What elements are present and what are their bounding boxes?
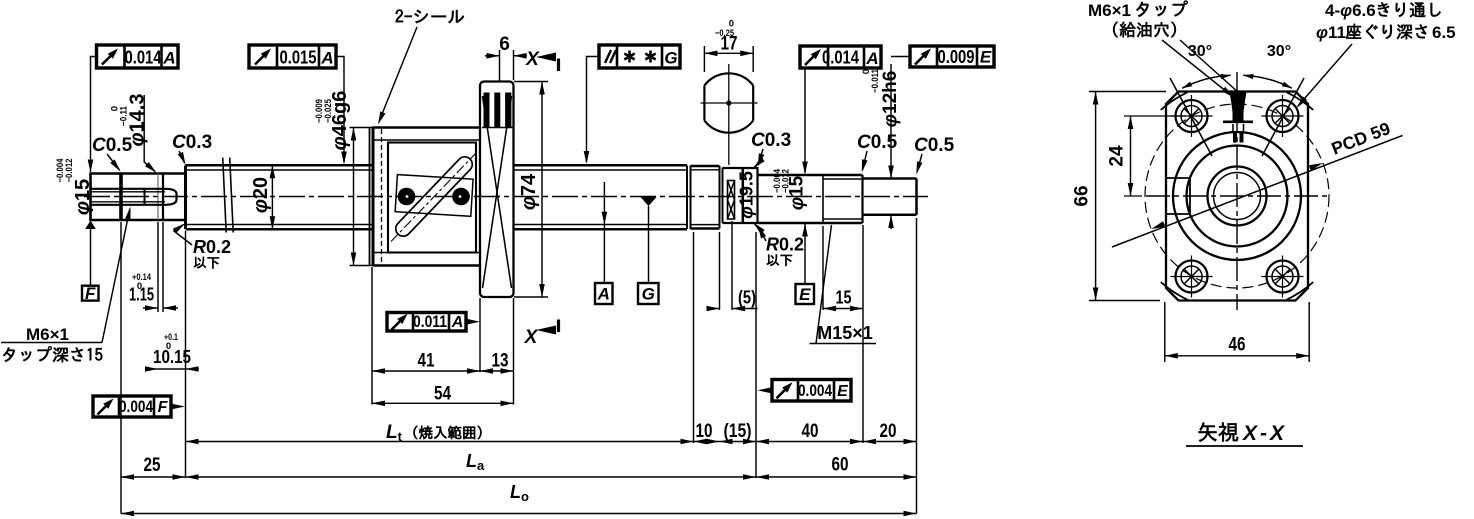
fillet label R0.2 right leader (760, 229, 767, 242)
svg-text:−0.012: −0.012 (64, 159, 75, 183)
chamfer label C0.3 right leader (759, 149, 764, 164)
frame F1 runout 0.014 A (97, 45, 179, 68)
svg-text:X: X (525, 49, 540, 70)
dimension 15 thread length (822, 226, 824, 310)
flats section crosshair (701, 102, 758, 104)
frame F2 runout 0.015 A (249, 45, 336, 68)
frame F8 leader arrow (763, 389, 772, 391)
thread end marks (686, 166, 688, 230)
svg-text:−0.11: −0.11 (119, 105, 130, 126)
dimension 46 (1164, 302, 1166, 362)
dimension 10 (694, 441, 720, 443)
screw shaft thread OD bottom left segment (186, 228, 374, 231)
svg-text:10.15: 10.15 (153, 347, 191, 367)
frame F3 parallelism leader (587, 57, 600, 163)
return tube leg hole left (398, 188, 416, 206)
dimension Lt hardened range (186, 441, 694, 443)
ball nut body outline (373, 126, 481, 129)
svg-text:25: 25 (144, 455, 161, 476)
extension line left end (120, 222, 122, 514)
svg-text:−0.012: −0.012 (781, 169, 792, 193)
svg-text:φ20: φ20 (250, 177, 272, 213)
dimension phi19.5 (753, 159, 763, 169)
datum G triangle on axis (641, 197, 657, 206)
X-X vertical centerline (1236, 72, 1238, 310)
frame F7 leader arrow (171, 406, 180, 408)
dimension 60 (756, 476, 917, 478)
datum F box (82, 286, 99, 301)
svg-text:E: E (837, 383, 849, 400)
dimension 25 (121, 476, 186, 478)
shaft break marks (223, 158, 227, 233)
datum A box (595, 283, 613, 304)
svg-text:0.015: 0.015 (280, 48, 317, 68)
dimension 6 flange step (499, 50, 501, 82)
return tube leg hole right (452, 188, 470, 206)
svg-text:F: F (85, 284, 96, 303)
section cut X arrow top (557, 59, 560, 72)
X-X pilot circle (1187, 146, 1288, 247)
svg-text:20: 20 (880, 421, 897, 442)
X-X 30 degree radial line left (1170, 78, 1212, 156)
svg-text:φ12h6: φ12h6 (880, 71, 901, 128)
svg-text:X-X: X-X (1242, 422, 1287, 445)
screw shaft thread OD top left segment (186, 164, 374, 167)
screw shaft thread root top right segment (514, 169, 688, 171)
svg-text:M6×1: M6×1 (26, 325, 69, 344)
frame F8 runout 0.004 E (772, 380, 851, 402)
X-X flange OD corner arcs (1161, 92, 1188, 110)
snap ring groove left edge (157, 174, 159, 221)
screw shaft thread root bottom left segment (187, 224, 373, 226)
svg-text:X: X (524, 327, 539, 348)
PCD 59 diameter line (1112, 136, 1403, 248)
svg-text:A: A (451, 314, 464, 331)
svg-text:60: 60 (832, 455, 849, 476)
datum G box (638, 283, 659, 304)
X-X bolt hole bottom right (1267, 261, 1299, 293)
svg-text:−0.025: −0.025 (323, 98, 334, 123)
svg-text:R0.2: R0.2 (193, 237, 231, 257)
svg-text:E: E (980, 48, 992, 67)
wrench flat section outline (723, 167, 758, 169)
phi12 end section (863, 177, 917, 180)
svg-text:6.5: 6.5 (1432, 23, 1456, 42)
svg-text:φ14.3: φ14.3 (127, 93, 149, 146)
svg-text:0.004: 0.004 (119, 398, 154, 416)
X-X bolt hole top right (1267, 100, 1299, 132)
datum F triangle and leader (85, 221, 96, 230)
svg-text:13: 13 (492, 351, 509, 372)
label M6x1 tap leader (1162, 40, 1232, 96)
dimension 13 flange thickness (513, 298, 515, 405)
wrench flat section left edge (719, 166, 721, 229)
section cut X arrow bottom (557, 320, 560, 333)
label M6x1 leader (1, 342, 102, 344)
X-X horizontal centerline (1146, 195, 1328, 197)
left end face (89, 173, 92, 222)
svg-text:6: 6 (499, 34, 510, 55)
svg-text:(5): (5) (738, 288, 756, 308)
dimension 40 (756, 441, 863, 443)
M6 tap hole outline (91, 188, 166, 190)
svg-text:F: F (158, 399, 169, 416)
svg-text:0.011: 0.011 (413, 313, 447, 331)
dimension 20 (863, 441, 917, 443)
dimension 54 nut total (372, 402, 514, 404)
svg-text:−0.25: −0.25 (715, 28, 735, 39)
M15 thread end shoulder (861, 175, 863, 223)
return tube capsule (393, 154, 476, 240)
chamfer label C0.3 left leader (179, 151, 185, 163)
svg-text:54: 54 (434, 384, 451, 405)
dimension La (186, 476, 757, 478)
frame F7 runout 0.004 F (93, 396, 171, 417)
svg-text:24: 24 (1107, 145, 1128, 167)
dimension 17 across flats (703, 46, 705, 72)
plain section after thread (691, 165, 720, 168)
label 4-phi6.6 leader (1298, 44, 1352, 106)
frame F3 parallelism asterisks G (599, 45, 680, 68)
return tube clamp plate (395, 175, 473, 217)
label 2-seals (396, 10, 464, 24)
dimension phi14.3 leader (144, 95, 155, 172)
X-X bolt circle PCD dashed (1145, 104, 1329, 288)
return tube axis centerline (391, 152, 477, 242)
snap ring groove right edge (162, 174, 164, 221)
X-X bolt hole bottom left (1176, 261, 1208, 293)
wrench flats cross-section circle (704, 73, 753, 85)
main shaft centerline (84, 196, 928, 198)
dimension phi20 (271, 165, 273, 229)
dimension 1.15 groove width (157, 222, 159, 312)
svg-text:C0.3: C0.3 (172, 132, 212, 153)
X-X 30 degree radial line right (1262, 78, 1304, 156)
svg-text:φ19.5: φ19.5 (737, 171, 757, 219)
svg-text:A: A (320, 49, 333, 68)
dimension (15) (720, 441, 757, 443)
phi15 right journal (758, 174, 824, 177)
dimension phi12h6 with tolerance (890, 64, 892, 177)
nut flange outline (480, 82, 514, 298)
extension line thread start right (693, 232, 695, 443)
svg-text:0.004: 0.004 (798, 382, 833, 400)
left journal phi15 top line (91, 172, 186, 175)
svg-text:A: A (865, 49, 878, 68)
ball nut window rectangle (388, 143, 476, 253)
X-X center bore circles (1214, 173, 1261, 220)
screw shaft thread OD bottom right segment (514, 228, 688, 231)
X-X oil hole and tube top structure (1230, 92, 1247, 112)
dimension 66 (1089, 91, 1166, 93)
svg-text:30°: 30° (1267, 43, 1291, 60)
datum E box (796, 284, 815, 304)
left journal step line (119, 174, 123, 221)
nut flange cross lines (483, 96, 512, 288)
svg-text:15: 15 (836, 288, 852, 308)
svg-text:C0.5: C0.5 (914, 135, 955, 156)
dimension 10.15 from groove (185, 231, 187, 478)
frame F2 runout 0.015 A leader (336, 57, 344, 163)
svg-text:0.009: 0.009 (938, 47, 975, 67)
svg-text:G: G (664, 49, 677, 68)
frame F5 runout 0.009 E (910, 46, 994, 67)
dimension 41 nut body (371, 267, 373, 405)
svg-text:φ11: φ11 (1316, 23, 1346, 42)
svg-text:(15): (15) (724, 421, 752, 442)
svg-text:C0.3: C0.3 (751, 130, 791, 151)
dimension phi74 flange (514, 81, 548, 83)
frame F6 leader arrow (466, 321, 475, 323)
svg-text:−0.011: −0.011 (870, 68, 881, 93)
frame F6 runout 0.011 A (387, 313, 466, 332)
return tube at flange top (484, 93, 490, 128)
chamfer label C0.5 mid leader (863, 151, 868, 170)
svg-text:0.014: 0.014 (125, 48, 162, 68)
svg-text:E: E (799, 285, 811, 304)
dimension phi15 right with tolerance (804, 64, 806, 173)
svg-text:10: 10 (696, 421, 713, 442)
X-X bolt hole top left (1176, 100, 1208, 132)
svg-text:40: 40 (802, 421, 819, 442)
dimension 24 (1124, 115, 1186, 117)
wrench flat section inner line (742, 168, 745, 223)
svg-text:A: A (162, 49, 175, 68)
svg-text:4-φ6.6: 4-φ6.6 (1325, 1, 1376, 20)
M15 thread section (823, 174, 863, 177)
extension line right end (916, 218, 918, 514)
svg-text:A: A (597, 285, 610, 304)
fillet label R0.2 leader left (174, 225, 192, 246)
svg-text:R0.2: R0.2 (766, 235, 804, 255)
left journal phi15 bottom line (91, 219, 186, 222)
datum A leader on screw (603, 182, 605, 283)
left shoulder face (184, 166, 187, 230)
frame F4 runout 0.014 A right (800, 46, 881, 68)
ball nut seal hidden line left (381, 129, 383, 263)
svg-text:66: 66 (1072, 185, 1093, 206)
frame F1 runout 0.014 A leader (91, 57, 97, 173)
M15 thread start line (822, 175, 824, 223)
shoulder to phi15 right (756, 167, 758, 224)
svg-text:M6×1: M6×1 (1088, 1, 1131, 20)
svg-text:φ15: φ15 (72, 179, 94, 215)
chamfer label C0.5 left leader (107, 154, 120, 170)
svg-text:46: 46 (1229, 335, 1246, 356)
screw shaft thread OD top right segment (514, 164, 688, 167)
svg-text:1.15: 1.15 (129, 285, 154, 305)
screw shaft thread root bottom right segment (514, 224, 688, 226)
label M15x1 leader (816, 225, 832, 344)
X-X 30 degree arc right (1243, 75, 1292, 88)
right end face (915, 179, 918, 215)
X-X left notch rectangle (1166, 177, 1190, 179)
dimension phi46g6 with tolerance (350, 127, 385, 129)
svg-text:G: G (642, 285, 655, 304)
label view X-X (1199, 423, 1238, 442)
svg-text:M15×1: M15×1 (817, 323, 873, 343)
wrench flat cross box (728, 181, 735, 220)
dimension Lo overall (121, 513, 917, 515)
frame F5 runout 0.009 E leader (891, 56, 910, 58)
X-X spigot circle (1173, 132, 1301, 260)
ball nut left face (369, 128, 371, 266)
label 2-seals leader (379, 27, 417, 122)
chamfer label C0.5 right leader (917, 154, 922, 172)
svg-text:0.014: 0.014 (822, 48, 859, 68)
dimension (5) (719, 232, 721, 310)
svg-text:41: 41 (418, 351, 435, 372)
X-X flange plate outline (1166, 92, 1308, 301)
extension line flats start (755, 232, 757, 478)
screw shaft thread root top left segment (187, 169, 373, 171)
X-X 30 degree arc left (1182, 75, 1231, 88)
svg-text:φ74: φ74 (518, 173, 540, 210)
M6 tap thread depth line (144, 189, 146, 205)
